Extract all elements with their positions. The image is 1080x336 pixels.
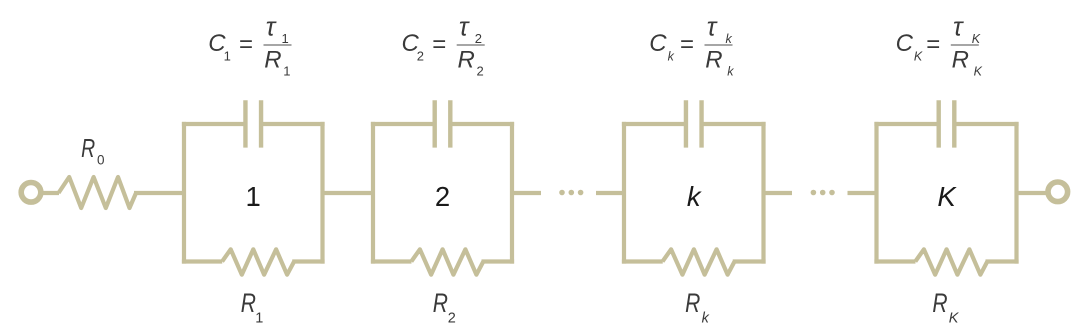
wire (block k right stub) <box>764 191 793 195</box>
svg-text:R: R <box>241 288 256 318</box>
wire (block 1 to block 2) <box>323 191 374 195</box>
svg-text:1: 1 <box>224 49 231 64</box>
wire (bottom right of block 1) <box>292 259 324 263</box>
svg-text:0: 0 <box>97 153 105 168</box>
svg-text:k: k <box>687 181 702 212</box>
svg-text:τ: τ <box>266 14 277 42</box>
wire <box>134 191 186 195</box>
svg-text:2: 2 <box>477 64 484 79</box>
svg-text:R: R <box>264 47 281 74</box>
svg-text:C: C <box>649 30 667 57</box>
wire (top right of block 2) <box>450 122 514 126</box>
right terminal <box>1048 182 1068 202</box>
label Rk <box>685 288 710 327</box>
wire (block K left edge) <box>874 122 878 264</box>
svg-text:K: K <box>974 65 983 79</box>
label RK <box>932 288 959 327</box>
svg-text:K: K <box>949 311 960 327</box>
label C1 = tau1/R1 <box>208 14 291 79</box>
wire (top left of block 1) <box>182 122 246 126</box>
wire (bottom left of block 2) <box>371 259 412 263</box>
svg-text:2: 2 <box>417 49 424 64</box>
wire (block 1 right edge) <box>320 122 324 264</box>
wire (block k left stub) <box>596 191 624 195</box>
wire (bottom right of block K) <box>986 259 1019 263</box>
svg-text:2: 2 <box>448 311 456 327</box>
svg-text:R: R <box>685 288 700 318</box>
svg-text:2: 2 <box>475 31 482 46</box>
wire (block 2 right edge) <box>510 122 514 264</box>
wire (block K to right terminal) <box>1017 191 1047 195</box>
label CK = tauK/RK <box>896 14 983 79</box>
svg-text:1: 1 <box>282 31 289 46</box>
capacitor Ck plates <box>686 100 702 147</box>
svg-text:R: R <box>952 47 969 74</box>
svg-text:K: K <box>937 181 957 212</box>
svg-text:K: K <box>972 32 981 46</box>
wire (bottom left of block k) <box>622 259 663 263</box>
svg-text:R: R <box>81 135 95 163</box>
block number K <box>937 181 957 212</box>
ellipsis dots <box>811 190 835 196</box>
svg-text:R: R <box>705 47 722 74</box>
svg-text:C: C <box>896 30 914 57</box>
label R1 <box>241 288 264 327</box>
block number 2 <box>435 181 450 212</box>
svg-text:K: K <box>914 50 923 64</box>
svg-text:=: = <box>926 31 940 58</box>
wire (block k right edge) <box>761 122 765 264</box>
block number k <box>687 181 702 212</box>
svg-text:1: 1 <box>283 64 290 79</box>
svg-text:R: R <box>433 288 448 318</box>
svg-text:1: 1 <box>246 181 261 212</box>
resistor R2 <box>411 249 483 274</box>
label R0 <box>81 135 104 168</box>
svg-text:τ: τ <box>953 14 964 42</box>
svg-text:R: R <box>932 288 947 318</box>
wire (block 2 left edge) <box>371 122 375 264</box>
svg-text:=: = <box>432 31 446 58</box>
wire (block K left stub) <box>848 191 877 195</box>
wire (top left of block k) <box>622 122 686 126</box>
svg-text:k: k <box>702 311 710 327</box>
svg-text:k: k <box>727 65 734 79</box>
svg-text:k: k <box>726 32 733 46</box>
wire (block K right edge) <box>1014 122 1018 264</box>
label C2 = tau2/R2 <box>402 14 485 79</box>
capacitor C1 plates <box>245 100 261 147</box>
block number 1 <box>246 181 261 212</box>
label Ck = tauk/Rk <box>649 14 734 79</box>
wire (block 2 right stub) <box>512 191 541 195</box>
wire (top right of block k) <box>702 122 766 126</box>
left terminal <box>21 183 41 203</box>
svg-text:τ: τ <box>459 14 470 42</box>
wire (top right of block K) <box>954 122 1018 126</box>
wire (block k left edge) <box>622 122 626 264</box>
wire (top right of block 1) <box>261 122 325 126</box>
wire <box>41 191 59 195</box>
svg-text:R: R <box>458 47 475 74</box>
wire (bottom right of block 2) <box>482 259 515 263</box>
svg-text:τ: τ <box>707 14 718 42</box>
resistor Rk <box>663 249 735 274</box>
resistor R1 <box>222 249 294 274</box>
wire (bottom right of block k) <box>733 259 766 263</box>
svg-text:1: 1 <box>255 311 263 327</box>
wire (block 1 left edge) <box>182 122 186 264</box>
svg-text:=: = <box>680 31 694 58</box>
capacitor C2 plates <box>435 100 451 147</box>
wire (top left of block K) <box>874 122 938 126</box>
wire (bottom left of block K) <box>874 259 915 263</box>
wire (bottom left of block 1) <box>182 259 222 263</box>
resistor RK <box>915 249 987 274</box>
svg-text:k: k <box>668 50 675 64</box>
svg-text:=: = <box>239 31 253 58</box>
svg-text:2: 2 <box>435 181 450 212</box>
label R2 <box>433 288 456 327</box>
wire (top left of block 2) <box>371 122 435 126</box>
ellipsis dots <box>559 190 583 196</box>
resistor R0 <box>59 177 137 208</box>
capacitor CK plates <box>939 100 955 147</box>
